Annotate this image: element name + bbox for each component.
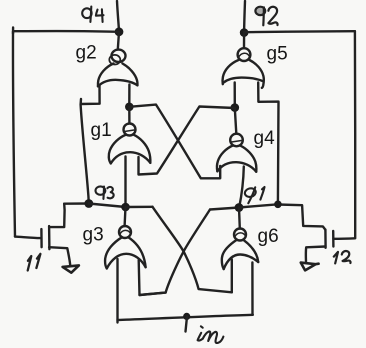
node phi1 dot2 [274, 201, 282, 209]
node phi3 dot2 [121, 203, 130, 212]
wire phi3 rail left [64, 202, 89, 205]
wire phi3 rail dot1 to dot2 [89, 204, 126, 208]
wire Q11 source lead [49, 247, 70, 265]
wire g4 left input leg + cross wire up-left to J1 [129, 105, 220, 179]
svg-text:g5: g5 [267, 44, 288, 65]
gate g2 body [98, 64, 114, 87]
gate g5 bubble [238, 48, 251, 61]
wire g1 left input leg down to phi3 node [124, 157, 126, 207]
label in [198, 326, 224, 343]
node phi3 dot1 [84, 199, 93, 208]
gate g6 bubble [234, 229, 246, 241]
label phi1 [244, 187, 265, 203]
wire phi1 rail dot1 to dot2 [239, 204, 278, 207]
wire phi2 dot to g5 bubble [243, 33, 246, 48]
gate g5 body [223, 60, 239, 84]
wire g6 right input leg down to in rail [251, 263, 254, 315]
label 11 [28, 254, 41, 271]
wire left vertical down [13, 32, 15, 237]
node phi1 dot1 [235, 203, 244, 212]
wire g3 right input leg down-right [139, 260, 166, 295]
wire phi4 dot to g2 bubble [118, 32, 119, 50]
transistor Q11 gate bar [40, 229, 43, 247]
wire phi2 horizontal to right edge [244, 31, 355, 32]
transistor Q12 gate bar [332, 231, 335, 247]
node in dot [183, 313, 190, 320]
wire in stub [186, 317, 188, 332]
wire g2 right input leg down to node J1 [128, 85, 130, 107]
wire phi1 rail left end to diagonal start [210, 208, 239, 210]
label phi4 [82, 7, 103, 22]
wire phi3 dot2 down to g3 bubble [123, 207, 126, 226]
label phi3 [96, 186, 114, 198]
wire Q12 source lead [306, 247, 326, 262]
node phi2 junction dot [240, 28, 249, 37]
gate g1 bubble [124, 124, 136, 136]
gate g4 bubble [230, 134, 243, 147]
wire gate lead of transistor 11 [15, 237, 40, 239]
svg-text:g4: g4 [254, 128, 276, 149]
wire g5 left input leg down to node J2 [233, 83, 236, 108]
wire Q12 drain staircase from phi1 rail [278, 205, 326, 230]
label 12 [334, 251, 351, 263]
wire gate lead of transistor 12 [333, 237, 355, 240]
wire g5 right input leg staircase down to phi1 rail [258, 83, 278, 205]
node phi4 junction dot [115, 27, 124, 36]
wire g6 left input leg down-left [231, 260, 233, 293]
transistor Q12 channel bar [324, 230, 327, 248]
gate g4 body [217, 145, 233, 171]
gate g3 bubble [119, 226, 131, 238]
svg-text:g3: g3 [83, 225, 104, 246]
svg-text:g2: g2 [76, 43, 97, 64]
wire g3 left input leg down to in rail [116, 259, 118, 323]
wire J2 down to g4 bubble [235, 108, 237, 134]
wire bottom in rail [118, 315, 253, 320]
wire phi3 rail dot2 to diagonal start [126, 206, 153, 209]
gate g2 bubble (double loop) [112, 50, 126, 62]
wire right vertical down [354, 31, 357, 237]
label phi2 [255, 7, 277, 26]
gate g3 body [105, 237, 122, 268]
ground symbol under Q12 [301, 263, 319, 271]
wire g1 right input leg + cross wire up-right to J2 [139, 107, 235, 175]
gate g6 body [222, 240, 237, 269]
wire phi4 horizontal to left edge [13, 28, 119, 34]
svg-text:g1: g1 [91, 120, 112, 141]
wire lower-X diagonal A phi3 to g6 left input [153, 207, 232, 292]
wire phi2 stem from top [243, 1, 246, 32]
ground symbol under Q11 [63, 265, 79, 272]
wire g4 right input leg down to phi1 node [239, 167, 244, 208]
gate g1 body [109, 135, 126, 164]
wire g2 left input leg down-left-down to phi3 [81, 85, 100, 204]
wire Q11 drain lead [50, 204, 64, 227]
wire phi1 dot1 down to g6 bubble [238, 208, 241, 229]
wire J1 down to g1 bubble [128, 107, 130, 123]
transistor Q11 channel bar [48, 226, 51, 249]
svg-text:g6: g6 [258, 226, 279, 247]
wire phi4 stem from top [117, 1, 119, 31]
node J2 dot [231, 103, 240, 112]
node J1 dot [125, 103, 134, 112]
wire lower-X diagonal B phi1 to g3 right input [140, 210, 211, 296]
